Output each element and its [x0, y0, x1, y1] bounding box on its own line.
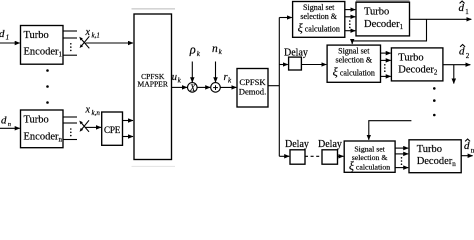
svg-text:2: 2 — [466, 52, 470, 60]
svg-text:selection &: selection & — [335, 56, 372, 65]
block delay n2 — [322, 150, 338, 164]
wire ss2 to dec2 stub3 — [381, 75, 391, 77]
wire delay-n2 to ss3 — [338, 155, 344, 157]
svg-text:Delay: Delay — [318, 139, 342, 150]
svg-text:Delay: Delay — [285, 139, 309, 150]
wire switch1 to mapper — [86, 42, 134, 44]
svg-text:CPE: CPE — [104, 125, 121, 135]
svg-text:Demod.: Demod. — [239, 87, 266, 97]
block Turbo Decoder 2 — [391, 48, 443, 81]
svg-text:CPFSK: CPFSK — [239, 77, 266, 87]
wire dashed delay-n1 to delay-n2 — [305, 155, 322, 157]
wire ss1 to dec1 stub2 — [345, 16, 356, 18]
multiplier node X — [188, 83, 198, 93]
wire multiplier to adder — [197, 86, 210, 88]
wire demod output to bus — [268, 85, 279, 87]
wire ss3 to decn stub1 — [395, 147, 408, 149]
svg-text:n: n — [212, 43, 218, 55]
svg-text:u: u — [172, 72, 177, 83]
node dots between encoder1 stubs — [70, 43, 72, 51]
shade artifact above mapper — [132, 8, 176, 9]
block delay n1 — [290, 150, 305, 164]
svg-text:MAPPER: MAPPER — [138, 80, 169, 89]
wire decoder2 down branch — [453, 65, 455, 84]
svg-text:Encodern: Encodern — [24, 132, 63, 144]
wire ss2 to dec2 stub1 — [381, 52, 391, 54]
shade artifact above decoder1 — [356, 0, 410, 2]
svg-text:Decodern: Decodern — [417, 156, 457, 168]
svg-text:d: d — [464, 140, 470, 152]
node d-hat-2 label — [459, 45, 470, 61]
svg-text:1: 1 — [6, 33, 10, 41]
wire delay2 to ss2 — [301, 64, 326, 66]
node dots ss2-dec2 — [384, 64, 386, 72]
svg-text:x: x — [85, 27, 91, 38]
wire encoder1 output stub 2 — [63, 37, 77, 39]
svg-text:d: d — [459, 2, 465, 14]
wire adder to demod — [220, 86, 236, 88]
wire dn input arrow — [0, 127, 20, 129]
wire encoder-n output stub 2 — [63, 122, 77, 124]
node d1 input label — [0, 28, 9, 41]
node uk label — [172, 72, 182, 85]
node nk label — [212, 43, 223, 56]
block Turbo Encoder 1 — [21, 26, 64, 65]
wire encoder1 output stub 1 — [63, 30, 77, 32]
wire switch-n to CPE — [85, 126, 101, 128]
svg-text:d: d — [1, 115, 7, 127]
svg-text:X: X — [189, 83, 196, 93]
wire decoder1 output — [410, 18, 472, 20]
block Signal set selection n — [344, 141, 395, 172]
svg-text:Turbo: Turbo — [24, 115, 49, 126]
svg-text:x: x — [85, 105, 91, 116]
block Turbo Encoder n — [21, 110, 64, 148]
svg-text:Decoder2: Decoder2 — [398, 65, 438, 77]
block Signal set selection 2 — [327, 45, 380, 82]
node d-hat-1 label — [459, 1, 470, 16]
wire distribution bus vertical — [278, 18, 280, 157]
node rk label — [224, 72, 233, 85]
svg-text:Turbo: Turbo — [364, 7, 389, 18]
wire decoder2 output — [443, 64, 470, 66]
wire encoder1 output stub 3 — [63, 54, 77, 56]
wire ss3 to decn stub2 — [395, 153, 408, 155]
svg-text:ρ: ρ — [189, 43, 196, 57]
wire feedback decoder1 to ss2 — [352, 19, 426, 44]
node dots chain right — [433, 87, 436, 116]
wire rho-k drop into multiplier — [191, 62, 193, 83]
wire bus to signal-set-1 — [279, 17, 292, 19]
node rho-k label — [189, 43, 201, 59]
wire CPE to mapper 2 — [123, 136, 134, 138]
wire mapper to multiplier — [172, 86, 187, 88]
block CPFSK Demod — [237, 69, 268, 108]
wire encoder-n output stub 1 — [63, 116, 77, 118]
svg-text:Signal set: Signal set — [338, 47, 370, 56]
switch selector n — [79, 120, 89, 132]
svg-text:1: 1 — [465, 8, 469, 16]
svg-text:Decoder1: Decoder1 — [364, 19, 404, 31]
block Signal set selection 1 — [293, 2, 345, 38]
node dots ss3-decn — [401, 157, 403, 165]
node dn input label — [1, 115, 11, 128]
svg-text:Encoder1: Encoder1 — [24, 47, 63, 59]
block Turbo Decoder n — [409, 140, 461, 173]
block delay 2 — [289, 57, 302, 70]
svg-text:Signal set: Signal set — [303, 3, 335, 12]
svg-text:selection &: selection & — [352, 153, 388, 162]
switch selector 1 — [79, 36, 89, 48]
node d-hat-n label — [464, 139, 474, 155]
wire encoder-n output stub 3 — [63, 139, 77, 141]
wire CPE to mapper 1 — [123, 120, 134, 122]
node xk1 label — [85, 27, 100, 40]
block Turbo Decoder 1 — [356, 2, 410, 36]
svg-text:Turbo: Turbo — [398, 53, 423, 64]
shade artifact below mapper — [132, 166, 176, 167]
block CPFSK MAPPER — [134, 14, 172, 160]
wire ss2 to dec2 stub2 — [381, 59, 391, 61]
wire bus to delay-n1 — [279, 155, 289, 157]
svg-text:d: d — [459, 46, 465, 58]
svg-text:k,n: k,n — [92, 109, 101, 117]
svg-text:Turbo: Turbo — [417, 144, 442, 155]
svg-text:d: d — [0, 28, 5, 40]
wire feedback into ss3 — [369, 121, 412, 140]
svg-text:Turbo: Turbo — [24, 30, 49, 41]
svg-text:k,1: k,1 — [92, 31, 100, 39]
node dots between encoder-n stubs — [70, 128, 72, 136]
wire bus to delay-2 — [279, 64, 288, 66]
node dots between encoders — [46, 69, 49, 104]
wire ss1 to dec1 stub3 — [345, 30, 356, 32]
wire nk drop into adder — [215, 62, 217, 83]
node dots ss1-dec1 — [349, 20, 351, 28]
adder node + — [211, 83, 221, 93]
wire d1 input arrow — [0, 42, 20, 44]
wire ss1 to dec1 stub1 — [345, 9, 356, 11]
block CPE — [102, 112, 123, 145]
node xkn label — [85, 105, 101, 118]
svg-text:n: n — [8, 121, 11, 128]
wire decoder-n output — [461, 155, 472, 157]
svg-text:selection &: selection & — [300, 12, 337, 21]
wire ss3 to decn stub3 — [395, 167, 408, 169]
